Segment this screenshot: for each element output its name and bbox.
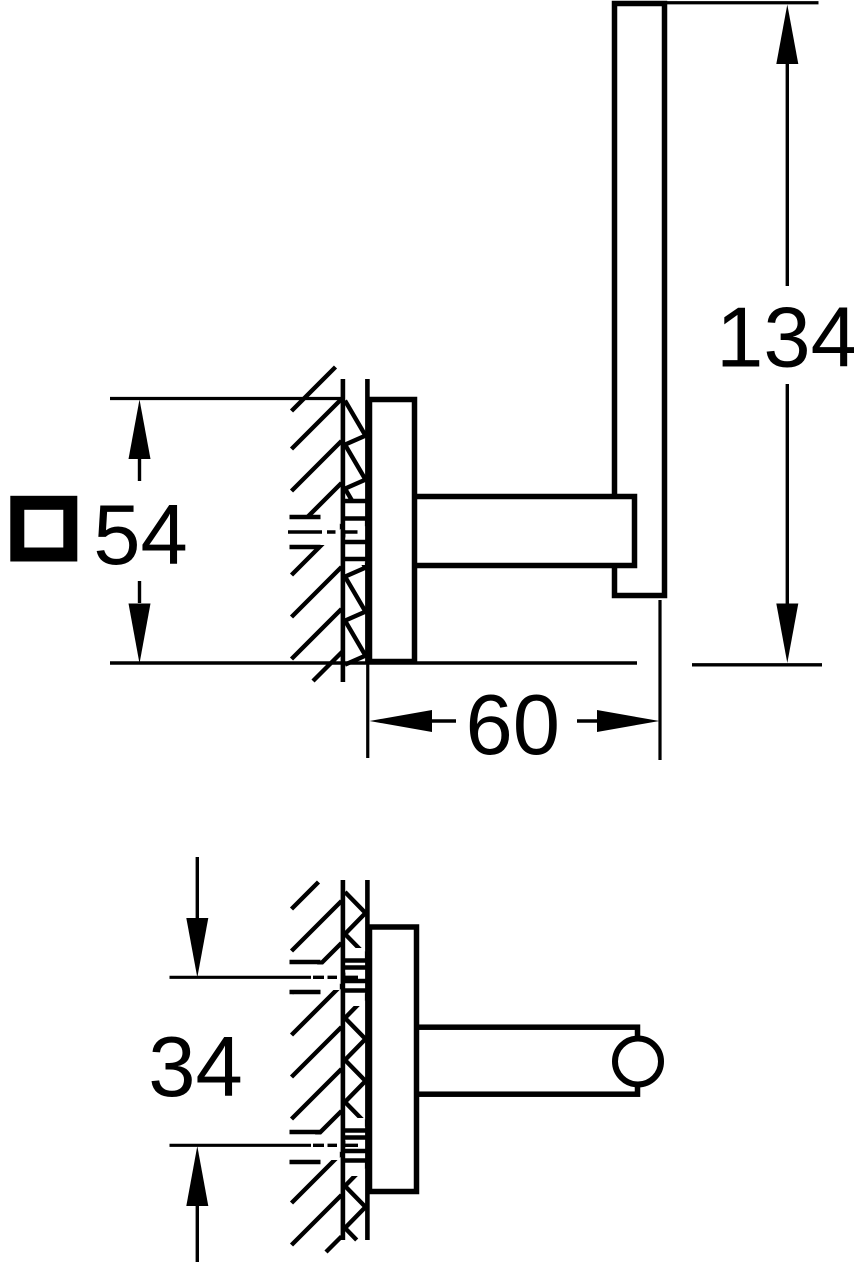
svg-text:134: 134 xyxy=(716,290,854,385)
svg-text:34: 34 xyxy=(148,1020,243,1115)
svg-text:60: 60 xyxy=(466,678,561,773)
svg-text:54: 54 xyxy=(93,488,188,583)
